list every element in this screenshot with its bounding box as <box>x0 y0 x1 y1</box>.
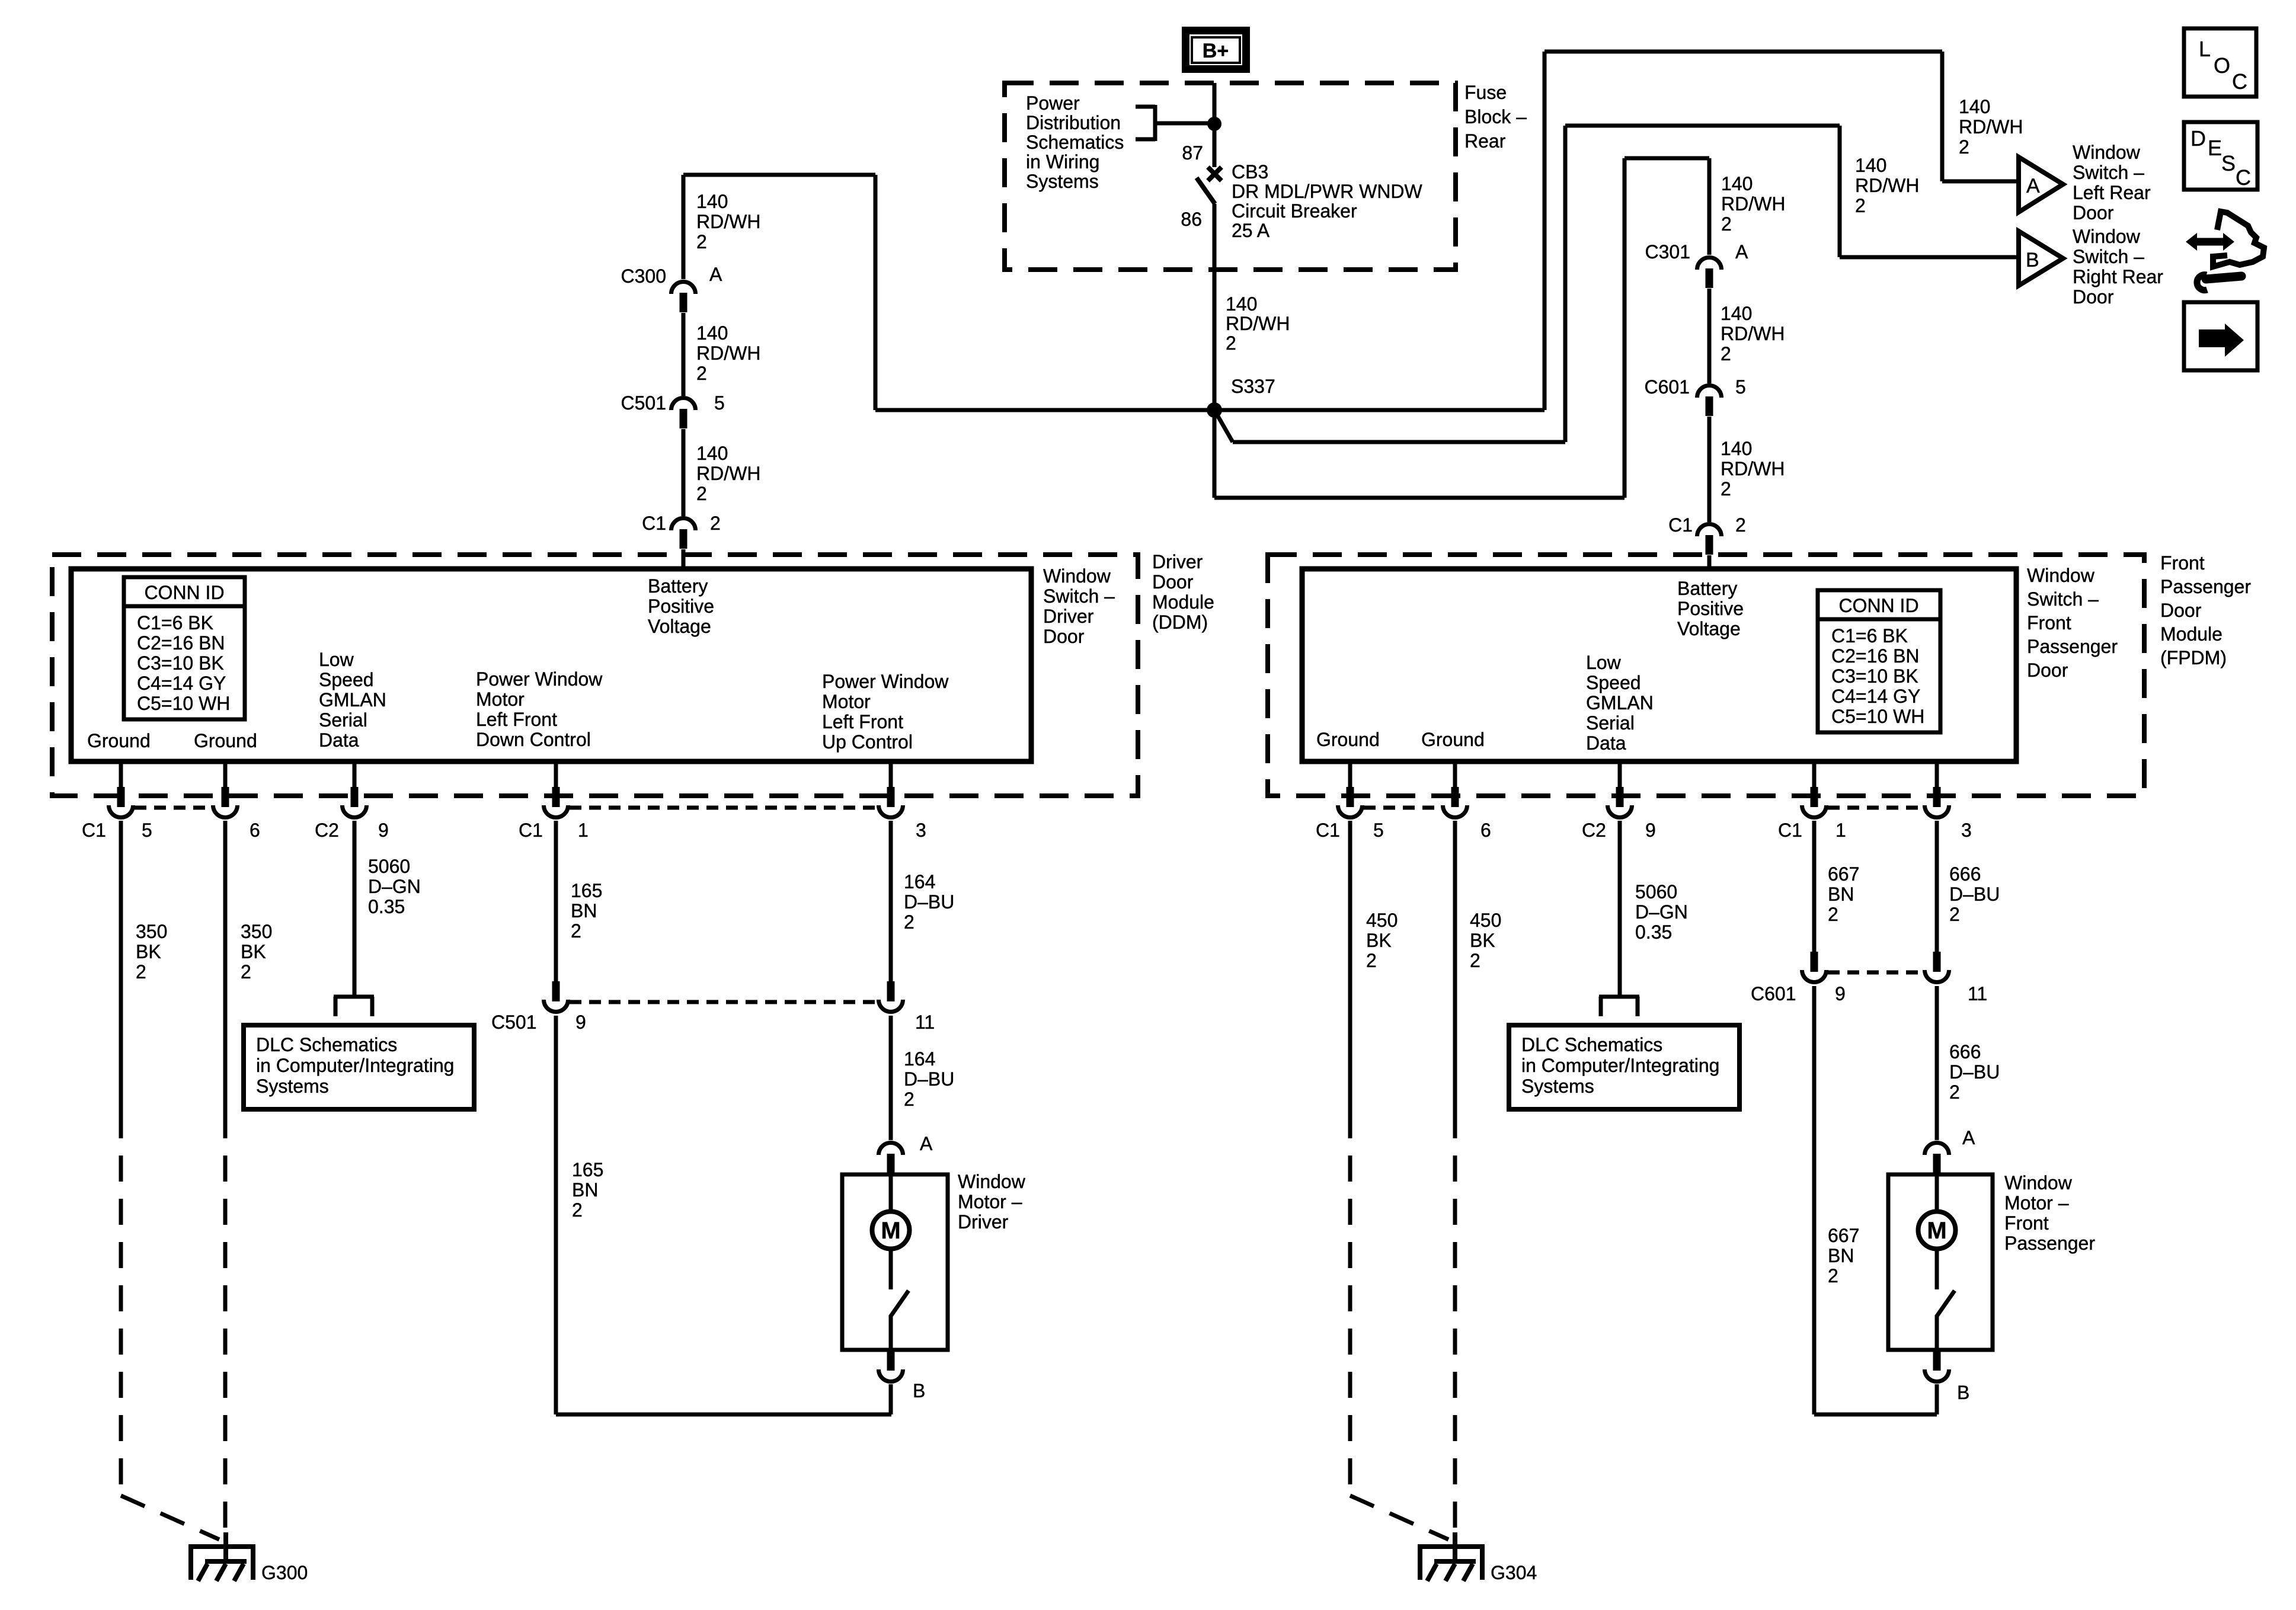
svg-text:2: 2 <box>696 363 707 384</box>
svg-text:C1: C1 <box>1668 514 1693 536</box>
svg-text:D–BU: D–BU <box>904 891 954 913</box>
svg-text:Speed: Speed <box>1586 672 1641 693</box>
svg-text:1: 1 <box>1835 820 1846 841</box>
svg-text:BK: BK <box>241 941 266 962</box>
svg-text:667: 667 <box>1828 863 1859 885</box>
svg-text:C1: C1 <box>82 820 106 841</box>
svg-text:2: 2 <box>696 231 707 252</box>
svg-text:RD/WH: RD/WH <box>696 343 760 364</box>
svg-text:C501: C501 <box>491 1012 537 1033</box>
svg-text:L: L <box>2199 37 2211 61</box>
svg-text:Right Rear: Right Rear <box>2073 266 2163 287</box>
svg-text:in Computer/Integrating: in Computer/Integrating <box>1521 1055 1719 1076</box>
svg-text:S337: S337 <box>1231 376 1275 397</box>
svg-text:C2=16 BN: C2=16 BN <box>137 632 225 654</box>
svg-text:M: M <box>881 1218 900 1244</box>
svg-text:B: B <box>2026 249 2039 271</box>
svg-text:Window: Window <box>2073 142 2141 163</box>
svg-text:Front: Front <box>2004 1212 2049 1234</box>
svg-text:Ground: Ground <box>87 730 151 751</box>
svg-text:2: 2 <box>136 961 146 982</box>
svg-text:5: 5 <box>1735 376 1746 398</box>
svg-text:Window: Window <box>2073 226 2141 247</box>
svg-text:Window: Window <box>2027 565 2095 586</box>
svg-text:666: 666 <box>1949 863 1981 885</box>
svg-text:666: 666 <box>1949 1041 1981 1062</box>
svg-text:Positive: Positive <box>648 596 714 617</box>
svg-text:A: A <box>2026 175 2040 197</box>
svg-text:Switch –: Switch – <box>2073 162 2144 183</box>
svg-text:2: 2 <box>1828 904 1838 925</box>
svg-text:Ground: Ground <box>1421 729 1485 750</box>
svg-text:C1: C1 <box>1316 820 1340 841</box>
svg-text:2: 2 <box>904 911 914 933</box>
svg-text:140: 140 <box>1959 96 1990 117</box>
svg-text:B+: B+ <box>1203 40 1229 62</box>
svg-text:2: 2 <box>571 920 581 942</box>
svg-text:DR MDL/PWR WNDW: DR MDL/PWR WNDW <box>1232 181 1423 202</box>
svg-text:Block –: Block – <box>1464 106 1527 127</box>
svg-text:450: 450 <box>1470 910 1501 931</box>
svg-text:DLC Schematics: DLC Schematics <box>256 1034 397 1055</box>
svg-text:Voltage: Voltage <box>648 616 711 637</box>
svg-text:5: 5 <box>142 820 152 841</box>
svg-text:RD/WH: RD/WH <box>1721 323 1785 344</box>
svg-text:Passenger: Passenger <box>2004 1233 2095 1254</box>
svg-text:A: A <box>920 1133 933 1154</box>
svg-text:S: S <box>2221 151 2236 175</box>
svg-text:5: 5 <box>1373 820 1384 841</box>
svg-text:9: 9 <box>378 820 389 841</box>
svg-text:140: 140 <box>696 322 728 344</box>
svg-text:RD/WH: RD/WH <box>1855 175 1919 196</box>
svg-text:Battery: Battery <box>1677 578 1737 599</box>
svg-text:Motor: Motor <box>476 689 525 710</box>
svg-text:C4=14 GY: C4=14 GY <box>1831 686 1920 707</box>
svg-text:Left Rear: Left Rear <box>2073 182 2151 203</box>
svg-text:C4=14 GY: C4=14 GY <box>137 673 226 694</box>
svg-text:Circuit Breaker: Circuit Breaker <box>1232 200 1357 222</box>
svg-text:2: 2 <box>1855 195 1866 216</box>
svg-text:C1: C1 <box>519 820 543 841</box>
svg-text:Data: Data <box>1586 732 1626 754</box>
svg-text:Systems: Systems <box>256 1076 329 1097</box>
svg-text:Low: Low <box>1586 652 1622 673</box>
svg-text:Module: Module <box>2160 623 2223 645</box>
svg-text:GMLAN: GMLAN <box>319 689 386 710</box>
svg-text:Up Control: Up Control <box>822 731 913 753</box>
svg-text:C2=16 BN: C2=16 BN <box>1831 645 1920 667</box>
svg-text:Passenger: Passenger <box>2160 576 2251 597</box>
svg-text:Ground: Ground <box>1316 729 1380 750</box>
svg-text:Power Window: Power Window <box>476 668 603 690</box>
svg-text:Switch –: Switch – <box>2027 588 2099 610</box>
svg-text:E: E <box>2208 136 2222 160</box>
svg-text:2: 2 <box>572 1199 583 1221</box>
svg-text:2: 2 <box>710 513 721 534</box>
svg-text:2: 2 <box>1226 332 1236 354</box>
svg-text:C601: C601 <box>1645 376 1690 398</box>
svg-text:Driver: Driver <box>1043 606 1094 627</box>
svg-text:9: 9 <box>1835 983 1846 1004</box>
svg-text:C501: C501 <box>621 392 667 414</box>
svg-text:Fuse: Fuse <box>1464 82 1507 103</box>
svg-text:C1=6 BK: C1=6 BK <box>1831 625 1908 646</box>
svg-text:Voltage: Voltage <box>1677 618 1741 639</box>
svg-text:O: O <box>2214 53 2230 78</box>
svg-text:DLC Schematics: DLC Schematics <box>1521 1034 1662 1055</box>
svg-text:140: 140 <box>1721 438 1752 459</box>
svg-text:11: 11 <box>915 1012 935 1033</box>
svg-text:2: 2 <box>1959 136 1969 158</box>
svg-text:Positive: Positive <box>1677 598 1744 619</box>
svg-text:Down Control: Down Control <box>476 729 591 750</box>
svg-text:C3=10 BK: C3=10 BK <box>137 652 224 674</box>
svg-text:2: 2 <box>904 1089 914 1110</box>
svg-text:C: C <box>2232 69 2247 94</box>
svg-text:Module: Module <box>1152 591 1214 613</box>
svg-text:Door: Door <box>1043 626 1085 647</box>
svg-text:C2: C2 <box>315 820 339 841</box>
svg-text:164: 164 <box>904 1048 935 1070</box>
svg-text:165: 165 <box>572 1159 603 1180</box>
svg-text:D–BU: D–BU <box>1949 884 2000 905</box>
svg-text:164: 164 <box>904 871 935 892</box>
svg-text:Serial: Serial <box>319 709 367 731</box>
svg-text:D–BU: D–BU <box>1949 1061 2000 1083</box>
svg-text:Serial: Serial <box>1586 712 1635 734</box>
svg-text:Window: Window <box>958 1171 1026 1192</box>
svg-text:9: 9 <box>575 1012 586 1033</box>
svg-text:B: B <box>1957 1382 1969 1403</box>
svg-text:Systems: Systems <box>1521 1076 1594 1097</box>
svg-text:2: 2 <box>1366 950 1377 971</box>
svg-text:165: 165 <box>571 880 602 901</box>
svg-text:C301: C301 <box>1645 241 1691 263</box>
svg-text:Door: Door <box>2073 286 2114 308</box>
svg-text:6: 6 <box>250 820 260 841</box>
svg-text:RD/WH: RD/WH <box>696 463 760 484</box>
svg-text:Switch –: Switch – <box>1043 585 1115 607</box>
svg-text:Front: Front <box>2027 612 2071 633</box>
svg-text:C3=10 BK: C3=10 BK <box>1831 665 1918 687</box>
svg-text:Low: Low <box>319 649 354 670</box>
svg-text:Front: Front <box>2160 552 2205 574</box>
svg-text:A: A <box>1962 1127 1975 1148</box>
svg-text:(FPDM): (FPDM) <box>2160 647 2227 668</box>
svg-text:2: 2 <box>1721 478 1731 500</box>
svg-text:25 A: 25 A <box>1232 220 1270 241</box>
svg-text:1: 1 <box>578 820 589 841</box>
svg-text:BK: BK <box>1366 930 1392 951</box>
svg-text:3: 3 <box>1961 820 1972 841</box>
svg-text:140: 140 <box>696 443 728 464</box>
svg-text:RD/WH: RD/WH <box>1721 458 1785 479</box>
svg-text:C1: C1 <box>642 513 666 534</box>
svg-text:9: 9 <box>1645 820 1656 841</box>
svg-text:D–GN: D–GN <box>1635 901 1688 923</box>
svg-text:2: 2 <box>1721 213 1732 235</box>
svg-text:2: 2 <box>1470 950 1480 971</box>
svg-text:C1=6 BK: C1=6 BK <box>137 612 213 633</box>
svg-text:86: 86 <box>1181 209 1202 230</box>
svg-text:GMLAN: GMLAN <box>1586 692 1654 713</box>
svg-text:(DDM): (DDM) <box>1152 612 1208 633</box>
svg-text:Rear: Rear <box>1464 130 1506 152</box>
svg-text:450: 450 <box>1366 910 1398 931</box>
svg-text:C300: C300 <box>621 265 667 287</box>
svg-text:RD/WH: RD/WH <box>1959 116 2023 137</box>
svg-text:M: M <box>1927 1218 1946 1244</box>
svg-text:Door: Door <box>2027 660 2068 681</box>
svg-text:D–GN: D–GN <box>368 876 421 897</box>
svg-text:2: 2 <box>1828 1265 1838 1286</box>
svg-text:RD/WH: RD/WH <box>1721 193 1785 215</box>
svg-text:in Wiring: in Wiring <box>1026 151 1099 172</box>
svg-text:Window: Window <box>1043 565 1111 587</box>
svg-text:Schematics: Schematics <box>1026 132 1124 153</box>
svg-text:2: 2 <box>1735 514 1746 536</box>
svg-text:CONN ID: CONN ID <box>1838 595 1918 616</box>
svg-text:Speed: Speed <box>319 669 374 690</box>
svg-text:CONN ID: CONN ID <box>144 582 224 603</box>
svg-text:Power: Power <box>1026 92 1080 114</box>
svg-text:Data: Data <box>319 729 359 751</box>
svg-text:6: 6 <box>1480 820 1491 841</box>
svg-text:C1: C1 <box>1778 820 1802 841</box>
svg-text:C5=10 WH: C5=10 WH <box>1831 706 1924 727</box>
svg-text:Distribution: Distribution <box>1026 112 1121 133</box>
svg-text:140: 140 <box>1226 293 1257 315</box>
svg-text:CB3: CB3 <box>1232 161 1268 183</box>
svg-text:B: B <box>913 1380 925 1401</box>
svg-text:D–BU: D–BU <box>904 1068 954 1090</box>
svg-text:140: 140 <box>1721 303 1752 324</box>
svg-text:2: 2 <box>241 961 251 982</box>
svg-text:Driver: Driver <box>1152 551 1203 572</box>
svg-text:Motor –: Motor – <box>2004 1192 2069 1214</box>
svg-text:Motor –: Motor – <box>958 1191 1022 1212</box>
svg-text:G300: G300 <box>261 1562 308 1583</box>
svg-text:Driver: Driver <box>958 1211 1009 1233</box>
svg-text:Left Front: Left Front <box>822 711 903 732</box>
svg-text:Passenger: Passenger <box>2027 636 2118 657</box>
svg-text:Window: Window <box>2004 1172 2073 1193</box>
svg-text:Door: Door <box>2073 202 2114 223</box>
svg-text:11: 11 <box>1968 983 1987 1004</box>
svg-text:D: D <box>2191 126 2206 151</box>
svg-text:C: C <box>2236 165 2251 190</box>
svg-text:Motor: Motor <box>822 691 871 712</box>
svg-text:2: 2 <box>696 483 707 504</box>
svg-text:BK: BK <box>1470 930 1495 951</box>
svg-text:BN: BN <box>571 900 597 921</box>
svg-text:BN: BN <box>1828 1245 1854 1266</box>
svg-text:Ground: Ground <box>194 730 257 751</box>
svg-text:5: 5 <box>714 392 725 414</box>
svg-text:2: 2 <box>1949 1081 1960 1103</box>
svg-text:BN: BN <box>572 1179 598 1201</box>
svg-text:140: 140 <box>696 191 728 212</box>
svg-text:BK: BK <box>136 941 161 962</box>
svg-text:Left Front: Left Front <box>476 709 557 730</box>
svg-text:G304: G304 <box>1491 1562 1537 1583</box>
svg-text:0.35: 0.35 <box>1635 921 1672 943</box>
svg-text:Power Window: Power Window <box>822 671 949 692</box>
svg-text:BN: BN <box>1828 884 1854 905</box>
svg-text:A: A <box>1735 241 1748 263</box>
svg-text:RD/WH: RD/WH <box>696 211 760 232</box>
svg-text:Battery: Battery <box>648 575 708 597</box>
svg-text:2: 2 <box>1721 343 1731 364</box>
svg-text:2: 2 <box>1949 904 1960 925</box>
svg-text:350: 350 <box>136 921 167 942</box>
svg-text:in Computer/Integrating: in Computer/Integrating <box>256 1055 454 1076</box>
svg-text:C5=10 WH: C5=10 WH <box>137 693 230 714</box>
svg-text:87: 87 <box>1182 142 1203 164</box>
svg-text:140: 140 <box>1855 155 1886 176</box>
svg-text:Door: Door <box>1152 571 1194 593</box>
svg-text:5060: 5060 <box>1635 881 1677 902</box>
svg-text:C601: C601 <box>1751 983 1796 1004</box>
svg-text:667: 667 <box>1828 1225 1859 1246</box>
svg-text:Systems: Systems <box>1026 171 1099 192</box>
svg-text:3: 3 <box>916 820 926 841</box>
svg-text:A: A <box>709 264 722 285</box>
svg-text:RD/WH: RD/WH <box>1226 313 1290 334</box>
svg-text:5060: 5060 <box>368 856 410 877</box>
svg-text:140: 140 <box>1721 173 1753 194</box>
svg-text:Switch –: Switch – <box>2073 246 2144 267</box>
svg-text:Door: Door <box>2160 600 2202 621</box>
svg-text:0.35: 0.35 <box>368 896 405 917</box>
svg-text:350: 350 <box>241 921 272 942</box>
svg-text:C2: C2 <box>1582 820 1606 841</box>
